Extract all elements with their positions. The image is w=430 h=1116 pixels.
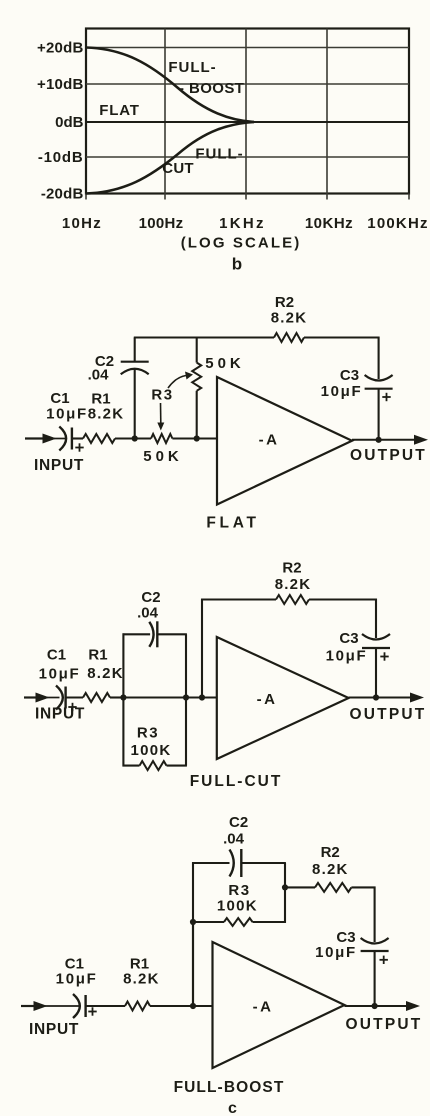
rect right vertical (FULL-BOOST) (284, 863, 286, 923)
node2 right of RC pair (FULL-CUT) (183, 694, 189, 700)
svg-text:50K: 50K (205, 355, 245, 372)
C2 branch right vertical (FULL-CUT) (185, 634, 187, 697)
label R3 100K (FULL-BOOST) (217, 882, 258, 915)
svg-text:1KHz: 1KHz (219, 215, 266, 232)
wire C1 to R1 (72, 437, 83, 439)
circuit FULL-CUT : input arrow (24, 693, 60, 703)
wire C3 to output node (FLAT) (378, 389, 380, 440)
svg-text:R2: R2 (282, 560, 301, 577)
svg-text:100K: 100K (217, 898, 258, 915)
wire R1 to node (115, 437, 151, 439)
svg-text:R1: R1 (88, 647, 107, 664)
node bottom-left of RC pair (FULL-BOOST) (190, 919, 196, 925)
wire R1 to node1 (FULL-CUT) (110, 696, 123, 698)
svg-text:- BOOST: - BOOST (179, 80, 244, 97)
potentiometer R3 upper element 50K (FLAT) (192, 338, 201, 439)
wire C3 to output node (FULL-BOOST) (374, 951, 376, 1006)
wire rect bottom to main (FULL-BOOST) (192, 922, 194, 1006)
svg-text:R3: R3 (137, 725, 159, 742)
label R3 with wiper arrow (FLAT) (151, 372, 193, 404)
svg-text:INPUT: INPUT (34, 457, 84, 474)
feedback left vertical (FULL-CUT) (201, 599, 203, 698)
svg-text:INPUT: INPUT (29, 1021, 79, 1038)
resistor R2 (FULL-BOOST) (315, 883, 351, 892)
svg-text:8.2K: 8.2K (87, 665, 124, 682)
svg-text:+10dB: +10dB (37, 76, 83, 93)
capacitor C2 (FULL-CUT) (149, 621, 157, 647)
wire 50K to op-amp input (172, 437, 217, 439)
svg-text:-A: -A (253, 999, 274, 1016)
R3 branch right vertical (FULL-CUT) (185, 698, 187, 766)
wire C3 to output node (FULL-CUT) (375, 648, 377, 698)
capacitor C2 (FULL-BOOST) (230, 849, 242, 877)
feedback top rail right (FULL-CUT) (309, 598, 377, 600)
wire right feedback vertical upper (FLAT) (378, 337, 380, 379)
wire R2 to right corner (304, 336, 380, 338)
svg-text:100K: 100K (130, 742, 171, 759)
resistor R1 (FULL-BOOST) (125, 1002, 150, 1011)
svg-text:-A: -A (257, 691, 278, 708)
output node (FLAT) (376, 437, 382, 443)
label C3 10uF (FULL-BOOST) (315, 929, 357, 961)
feedback top rail left (FULL-CUT) (201, 598, 276, 600)
output node (FULL-CUT) (373, 694, 379, 700)
svg-text:.04: .04 (88, 367, 110, 384)
svg-text:10μF: 10μF (39, 666, 81, 683)
R3 branch bottom wire + resistor R3 (FULL-BOOST) (192, 918, 286, 926)
wire node1 to op-amp (FULL-CUT) (123, 696, 216, 698)
svg-text:FLAT: FLAT (206, 515, 259, 532)
svg-text:FULL-BOOST: FULL-BOOST (174, 1079, 285, 1096)
svg-text:8.2K: 8.2K (88, 406, 125, 423)
svg-text:(LOG SCALE): (LOG SCALE) (181, 235, 302, 252)
label R2 8.2K (FULL-BOOST) (312, 844, 349, 878)
svg-text:OUTPUT: OUTPUT (346, 1016, 423, 1033)
svg-text:-A: -A (259, 432, 280, 449)
label C2 .04 (FULL-CUT) (137, 589, 161, 622)
resistor 50K lower element of R3 pot (FLAT) (151, 434, 172, 443)
svg-text:100Hz: 100Hz (139, 215, 184, 232)
svg-text:10μF: 10μF (56, 971, 98, 988)
rect left vertical (FULL-BOOST) (192, 862, 194, 1006)
circuit FULL-BOOST : input arrow (21, 1001, 79, 1011)
graph b: full-boost curve (86, 48, 254, 123)
label R1 8.2K (FULL-CUT) (87, 647, 124, 683)
C2 branch top wire right (FULL-BOOST) (241, 862, 286, 864)
feedback right vertical upper (FULL-BOOST) (374, 887, 376, 943)
label R1 8.2K (FULL-BOOST) (123, 956, 160, 988)
output wire with arrow (FULL-CUT) (349, 693, 424, 703)
svg-text:R3: R3 (228, 882, 250, 899)
wire R2 to right corner (FULL-BOOST) (351, 886, 375, 888)
output node (FULL-BOOST) (372, 1003, 378, 1009)
output wire with arrow (FLAT) (352, 435, 428, 445)
capacitor C1 (FULL-BOOST) (73, 994, 97, 1018)
C2 branch top wire left (FULL-CUT) (123, 633, 151, 635)
label R2 8.2K (FULL-CUT) (275, 560, 312, 594)
label R1 8.2K (FLAT) (88, 391, 125, 423)
svg-text:C2: C2 (141, 589, 160, 606)
label R3 100K (FULL-CUT) (130, 725, 171, 760)
output wire with arrow (FULL-BOOST) (345, 1001, 421, 1011)
resistor R1 (FULL-CUT) (83, 693, 110, 702)
svg-text:OUTPUT: OUTPUT (350, 706, 427, 723)
svg-text:C3: C3 (340, 367, 359, 384)
top feedback rail (FLAT) (134, 336, 274, 338)
svg-text:50K: 50K (143, 448, 183, 465)
svg-text:c: c (228, 1100, 237, 1116)
label C1 10uF (FLAT) (46, 390, 88, 423)
circuit FLAT : input arrow (25, 434, 66, 444)
svg-text:8.2K: 8.2K (275, 576, 312, 593)
feedback right vertical upper (FULL-CUT) (375, 599, 377, 638)
capacitor C3 (FULL-BOOST) (361, 938, 389, 964)
graph b: label FULL-BOOST (168, 59, 244, 97)
graph b: y-axis dB labels (37, 39, 84, 202)
wiper down-arrow to 50K (FLAT) (157, 403, 164, 431)
graph b: x-axis frequency labels (62, 215, 429, 232)
svg-text:8.2K: 8.2K (312, 861, 349, 878)
svg-text:10KHz: 10KHz (305, 215, 353, 232)
svg-text:8.2K: 8.2K (123, 971, 160, 988)
resistor R1 (FLAT) (83, 434, 115, 443)
wire R2 tap to resistor (FULL-BOOST) (285, 886, 315, 888)
node R2 tap (FULL-BOOST) (282, 884, 288, 890)
svg-text:10μF: 10μF (315, 944, 357, 961)
C2 branch top wire right (FULL-CUT) (157, 633, 187, 635)
graph b: grid frame (86, 29, 409, 200)
C2 branch top wire left (FULL-BOOST) (192, 862, 229, 864)
svg-text:FULL-: FULL- (168, 59, 216, 76)
label C2 .04 (FULL-BOOST) (223, 814, 248, 848)
wire R1 to node (FULL-BOOST) (150, 1005, 213, 1007)
svg-text:10μF: 10μF (46, 406, 88, 423)
resistor R2 (FLAT) (274, 333, 304, 342)
svg-text:FLAT: FLAT (99, 102, 139, 119)
R3 branch bottom wire + resistor R3 (FULL-CUT) (123, 761, 187, 770)
svg-text:CUT: CUT (162, 160, 193, 177)
capacitor C1 (FLAT) (59, 427, 83, 452)
svg-text:C2: C2 (229, 814, 248, 831)
svg-text:R2: R2 (275, 294, 294, 311)
svg-text:0dB: 0dB (55, 114, 84, 131)
node at R3 branch (FLAT) (194, 435, 200, 441)
label C3 10uF (FULL-CUT) (326, 630, 368, 665)
svg-text:b: b (232, 255, 242, 274)
svg-text:8.2K: 8.2K (271, 310, 308, 327)
label C3 10uF (FLAT) (321, 367, 363, 400)
svg-text:10μF: 10μF (326, 648, 368, 665)
node1 (FULL-CUT) (120, 694, 126, 700)
label C2 .04 (FLAT) (88, 353, 115, 384)
capacitor C1 (FULL-CUT) (56, 686, 77, 712)
graph b: full-cut curve (86, 122, 254, 194)
label R2 8.2K (FLAT) (271, 294, 308, 327)
node at C2 branch (FLAT) (132, 435, 138, 441)
svg-text:.04: .04 (137, 605, 159, 622)
label C1 10uF (FULL-CUT) (39, 647, 81, 683)
capacitor C2 (FLAT) (121, 362, 149, 375)
svg-text:C3: C3 (339, 630, 358, 647)
wire C2 to top rail (134, 338, 136, 362)
op-amp -A (FULL-BOOST) (213, 942, 345, 1068)
svg-text:10Hz: 10Hz (62, 215, 102, 232)
op-amp -A (FLAT) (217, 377, 352, 505)
op-amp -A (FULL-CUT) (217, 637, 349, 759)
wire C1 to R1 (FULL-CUT) (66, 696, 83, 698)
svg-text:10μF: 10μF (321, 383, 363, 400)
svg-text:OUTPUT: OUTPUT (350, 447, 427, 464)
graph b: flat response 0dB line (86, 121, 409, 123)
svg-text:C1: C1 (50, 390, 69, 407)
svg-text:+20dB: +20dB (37, 39, 83, 56)
C2 branch left vertical (FULL-CUT) (122, 633, 124, 697)
svg-text:R3: R3 (151, 387, 173, 404)
wire C2 branch vertical (134, 368, 136, 438)
svg-text:.04: .04 (223, 831, 245, 848)
svg-text:R2: R2 (321, 844, 340, 861)
graph b: label FULL-CUT (162, 146, 243, 178)
svg-text:-20dB: -20dB (41, 185, 84, 202)
label C1 10uF (FULL-BOOST) (56, 956, 98, 988)
resistor R2 (FULL-CUT) (276, 595, 309, 604)
svg-text:100KHz: 100KHz (367, 215, 428, 232)
svg-text:C1: C1 (47, 647, 66, 664)
svg-text:INPUT: INPUT (35, 706, 85, 723)
R3 branch left vertical (FULL-CUT) (122, 698, 124, 767)
node3 feedback tap (FULL-CUT) (199, 694, 205, 700)
svg-text:-10dB: -10dB (38, 149, 84, 166)
capacitor C3 (FLAT) (365, 375, 393, 401)
node main (FULL-BOOST) (190, 1003, 196, 1009)
svg-text:FULL-: FULL- (195, 146, 243, 163)
wire C1 to R1 (FULL-BOOST) (86, 1005, 125, 1007)
capacitor C3 (FULL-CUT) (362, 634, 390, 661)
svg-text:FULL-CUT: FULL-CUT (190, 773, 283, 790)
